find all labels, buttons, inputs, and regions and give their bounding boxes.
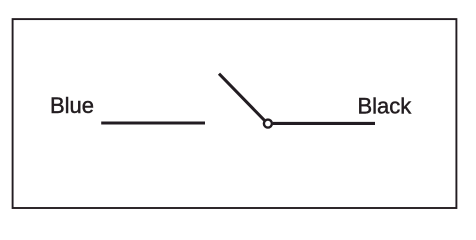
switch S1 arm (open pole) xyxy=(219,74,264,121)
wire black lead xyxy=(273,122,375,125)
svg-text:Black: Black xyxy=(358,94,413,119)
wire blue lead xyxy=(101,121,205,124)
switch S1 pivot terminal xyxy=(264,120,272,128)
svg-text:Blue: Blue xyxy=(50,93,94,118)
border frame xyxy=(13,19,457,208)
